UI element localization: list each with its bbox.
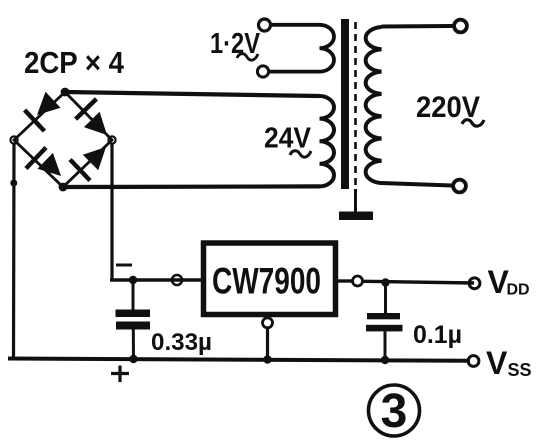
- node bottom vertex (junction dot): [59, 183, 68, 192]
- wire left vertex down to VSS rail: [12, 144, 16, 359]
- svg-text:DD: DD: [507, 282, 530, 299]
- label figure number 3 circled: [369, 385, 420, 438]
- transformer core dashed lamination line: [354, 22, 357, 205]
- svg-text:0.1µ: 0.1µ: [413, 321, 462, 349]
- node 1.2V bottom terminal: [257, 66, 268, 77]
- wire bridge bottom to 24V winding bottom: [63, 184, 320, 189]
- wire VSS rail: [8, 359, 470, 361]
- svg-text:CW7900: CW7900: [212, 261, 321, 302]
- label AC squiggle under 1.2V: [237, 54, 258, 60]
- node VDD terminal: [469, 278, 480, 289]
- svg-text:V: V: [486, 345, 508, 381]
- node ground pin rail junction: [263, 355, 271, 363]
- transformer winding 1.2V secondary: [270, 25, 335, 72]
- wire ground pin to rail: [266, 328, 269, 360]
- diode D3 (bottom-left arm): [26, 148, 61, 177]
- wire bridge top to 24V winding top: [65, 92, 320, 96]
- label AC squiggle under 220V: [462, 120, 484, 126]
- svg-text:3: 3: [381, 385, 408, 438]
- label minus sign: [116, 264, 132, 267]
- node left vertex (open terminal): [10, 136, 17, 143]
- node top vertex (junction dot): [61, 88, 70, 97]
- label VSS: [486, 345, 532, 381]
- transformer core bar: [341, 19, 349, 189]
- capacitor C2 0.1u: [366, 283, 403, 360]
- node inline terminal on input wire: [172, 275, 182, 285]
- node C2 junction top: [381, 278, 389, 286]
- op-amp U1 CW7900 regulator box: [204, 243, 336, 315]
- label plus sign: [111, 366, 129, 383]
- pin CW7900 ground pin terminal: [263, 318, 273, 328]
- ground: [339, 189, 373, 220]
- capacitor C1 0.33u: [116, 280, 151, 359]
- diode D4 (bottom-right arm): [70, 147, 106, 181]
- diode D2 (top-right arm): [76, 99, 107, 135]
- transformer winding 24V secondary: [320, 96, 335, 186]
- node right vertex (open terminal): [108, 136, 115, 143]
- wire right vertex down to regulator input: [110, 144, 113, 280]
- pin CW7900 output stub: [338, 279, 352, 282]
- node output pin terminal: [353, 276, 363, 286]
- node blob on left wire: [10, 180, 17, 187]
- label VDD: [488, 264, 530, 300]
- wire to CW7900 input: [110, 278, 201, 281]
- node 1.2V top terminal: [259, 19, 271, 31]
- wire output to VDD: [363, 281, 475, 283]
- transformer winding 220V primary: [366, 26, 453, 186]
- svg-text:SS: SS: [508, 360, 532, 380]
- node VSS terminal: [468, 356, 479, 367]
- node C1 junction: [129, 276, 137, 284]
- svg-text:1·2V: 1·2V: [210, 28, 261, 60]
- node 220V bottom terminal: [453, 180, 466, 193]
- svg-text:2CP × 4: 2CP × 4: [24, 45, 125, 80]
- label AC squiggle under 24V: [290, 151, 311, 157]
- node 220V top terminal: [454, 20, 467, 33]
- node C2 to rail junction: [381, 356, 389, 364]
- svg-text:0.33µ: 0.33µ: [151, 329, 212, 356]
- bridge rectifier body 2CP x4: [14, 92, 112, 187]
- node C1 to rail junction: [129, 355, 137, 363]
- svg-text:24V: 24V: [264, 123, 312, 155]
- diode D1 (top-left arm): [25, 92, 61, 131]
